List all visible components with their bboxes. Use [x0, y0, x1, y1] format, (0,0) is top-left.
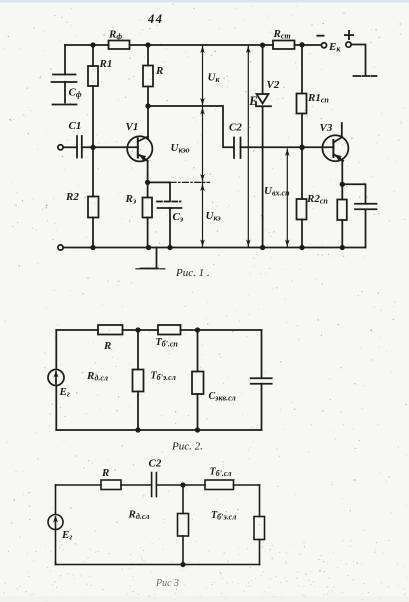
resistor Тб'сл fig3 [205, 480, 234, 490]
wire C1 to V1 base [82, 146, 138, 148]
wire Rэ to bottom rail [147, 218, 149, 248]
node fig2 top mid2 [196, 328, 200, 332]
wire rail to R1сп [301, 45, 303, 94]
wire R to C2 [121, 484, 152, 486]
wire fig2 col2 upper [197, 330, 199, 372]
wire tap to R2сп [301, 147, 303, 199]
terminal minus of Ек [321, 43, 326, 48]
wire emitter to Rэ [147, 182, 149, 197]
ground symbol [136, 248, 165, 269]
wire from plus terminal [351, 45, 365, 76]
wire emitter to R2э [341, 184, 343, 199]
node R2сп bottom [300, 246, 304, 250]
wire fig3 right upper [259, 485, 261, 517]
node V3 emitter [341, 183, 345, 187]
wire output cap to bottom rail [365, 209, 367, 247]
wire collector node to V1 [147, 106, 149, 139]
svg-text:Тб'.сп: Тб'.сп [156, 337, 179, 349]
wire fig2 bottom rail [56, 429, 261, 431]
capacitor Сф [52, 75, 77, 83]
wire C2 to rб' [156, 484, 205, 486]
capacitor C1 [77, 136, 82, 158]
wire fig3 mid col upper [182, 485, 184, 514]
capacitor Сэ [157, 202, 182, 209]
resistor R1сп [297, 94, 307, 114]
resistor Rст [273, 41, 295, 50]
resistor Тб'сп fig2 [158, 325, 181, 335]
svg-text:Рис 3: Рис 3 [155, 578, 179, 589]
wire fig2 col2 lower [197, 394, 199, 430]
wire emitter to output cap [342, 184, 365, 204]
wire V3 collector stub [341, 123, 343, 137]
chassis ground right [354, 75, 377, 77]
svg-text:E: E [248, 94, 257, 108]
wire fig3 bottom rail [56, 564, 260, 566]
wire Сф to end bar [64, 82, 66, 103]
wire rб' to right corner [181, 329, 262, 331]
wire R1сп to tap [301, 114, 303, 148]
wire fig3 left lower [55, 530, 57, 565]
svg-text:V1: V1 [126, 121, 139, 133]
resistor R [143, 66, 153, 87]
node R2 bottom [91, 246, 95, 250]
wire emitter dash level line [170, 181, 210, 183]
terminal input bottom [58, 245, 63, 250]
ground bar below Сф [53, 104, 77, 106]
wire C2 to V3 base [241, 146, 334, 148]
node fig2 top mid1 [136, 328, 140, 332]
resistor Rэ [143, 198, 153, 218]
node R-сп divider tap [300, 145, 304, 149]
resistor Rд.сл fig3 [178, 514, 189, 537]
wire left column down to Сф [64, 45, 66, 75]
node collector [146, 104, 150, 108]
wire top rail to minus terminal [295, 44, 322, 46]
node fig3 top mid [181, 483, 185, 487]
wire fig2 top-left [56, 329, 98, 331]
wire fig2 left lower [55, 386, 57, 431]
wire Сэ to bottom rail [169, 208, 171, 248]
node V2 bottom [261, 246, 265, 250]
source Ег fig3 [48, 515, 63, 530]
source Ег fig2 [48, 370, 64, 386]
wire fig3 mid col lower [182, 536, 184, 565]
node Rэ bottom [147, 246, 151, 250]
wire R2 to bottom rail [92, 218, 94, 248]
wire fig2 right side lower [261, 384, 263, 430]
svg-text:С2: С2 [149, 458, 162, 470]
svg-text:V3: V3 [320, 122, 333, 134]
node top of R [146, 43, 150, 47]
svg-text:44: 44 [147, 12, 164, 26]
wire emitter to Сэ [148, 182, 170, 201]
wire bottom rail [63, 247, 365, 249]
wire fig2 mid col lower [137, 392, 139, 431]
svg-text:Рис. 1 .: Рис. 1 . [175, 267, 210, 279]
svg-text:Сэкв.сл: Сэкв.сл [209, 391, 236, 403]
wire rб' to right corner [234, 484, 260, 486]
resistor Сэкв.сл fig2 [192, 372, 204, 395]
svg-text:С2: С2 [229, 122, 242, 134]
wire fig3 right lower [259, 540, 261, 565]
arrow Uвх.сп [285, 149, 290, 247]
node fig2 bottom mid2 [196, 428, 200, 432]
node top of R1сп [300, 43, 304, 47]
svg-text:R: R [103, 340, 111, 352]
wire fig2 right side upper [261, 330, 263, 378]
wire rail to R1 [92, 45, 94, 66]
wire V3 emitter down [341, 161, 343, 185]
wire V1 emitter down [147, 161, 149, 183]
node fig2 bottom mid1 [136, 428, 140, 432]
svg-text:Рис. 2.: Рис. 2. [171, 441, 203, 453]
resistor R2сп [297, 199, 307, 220]
svg-text:R: R [101, 467, 109, 479]
terminal plus of Ек [346, 42, 351, 47]
wire junction to R2 [92, 147, 94, 196]
resistor emitter V3 [337, 200, 347, 221]
node base divider junction [91, 146, 95, 150]
wire R1 to base node [92, 86, 94, 147]
wire rail to R [147, 45, 149, 66]
wire top rail middle segment [130, 44, 274, 46]
transistor V1 [127, 136, 152, 161]
capacitor C2 fig3 [152, 473, 157, 497]
svg-text:Тб'э.сл: Тб'э.сл [151, 371, 176, 383]
node top of R1 [91, 43, 95, 47]
capacitor fig2 right [251, 378, 272, 384]
capacitor output [355, 204, 377, 210]
resistor Rф [109, 41, 130, 50]
arrow E supply line [246, 46, 251, 247]
resistor R fig2 [98, 325, 123, 335]
wire R to collector node [147, 87, 149, 107]
arrow Uк Uкэо Uкэ line [200, 46, 205, 247]
resistor R fig3 [101, 480, 121, 490]
svg-text:Тб'.сл: Тб'.сл [210, 467, 232, 479]
wire fig2 mid col upper [137, 330, 139, 370]
terminal input top [58, 145, 63, 150]
node Сэ bottom [168, 246, 172, 250]
wire input to C1 [63, 146, 77, 148]
wire R2сп to bottom rail [301, 220, 303, 248]
svg-text:Тб'э.сл: Тб'э.сл [211, 510, 236, 522]
node fig3 bottom mid [181, 563, 185, 567]
wire fig3 left upper [55, 485, 57, 515]
wire fig2 left upper [55, 330, 57, 370]
node emitter [146, 181, 150, 185]
wire V2 bottom [262, 106, 264, 247]
svg-text:R: R [155, 65, 163, 77]
resistor Тб'э.сл fig2 [133, 370, 144, 392]
wire R to rб' [123, 329, 159, 331]
label minus sign [317, 35, 325, 37]
wire to bottom rail [341, 220, 343, 248]
diode V2 zener [256, 94, 271, 106]
capacitor C2 [234, 138, 241, 159]
resistor R1 [88, 66, 98, 86]
wire fig3 top-left [56, 484, 102, 486]
resistor R2 [88, 197, 99, 218]
svg-text:V2: V2 [267, 79, 280, 91]
node V2 top [261, 43, 265, 47]
svg-text:С1: С1 [69, 120, 82, 132]
transistor V3 [322, 135, 348, 161]
wire collector to C2 [148, 106, 234, 147]
wire top rail left segment [65, 44, 109, 46]
label plus sign [344, 30, 354, 40]
svg-text:R1: R1 [99, 58, 113, 70]
svg-text:R2: R2 [65, 191, 79, 203]
resistor Тб'э.сл fig3 [254, 517, 265, 540]
node V3 leg bottom [341, 246, 345, 250]
wire V2 top [262, 45, 264, 94]
